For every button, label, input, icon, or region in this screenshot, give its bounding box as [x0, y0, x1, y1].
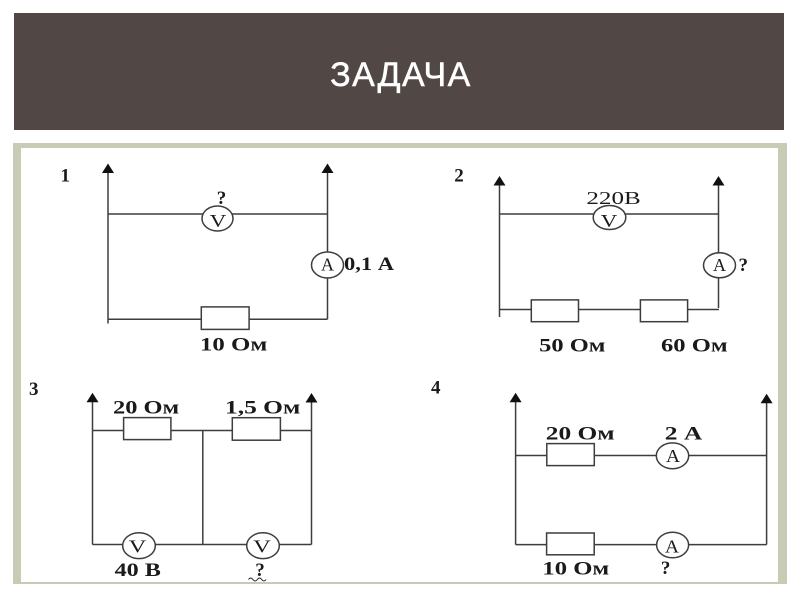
circuit 1 bottom wire: [108, 318, 328, 320]
circuit 3 bottom wire: [93, 544, 312, 546]
circuit 2 top wire: [500, 213, 719, 215]
circuit 4 right terminal arrow: [761, 394, 773, 404]
circuit 3 left wire: [92, 398, 94, 545]
svg-text:V: V: [253, 536, 271, 556]
circuit 3 voltmeter V2: [247, 533, 280, 559]
title bar: [14, 13, 785, 130]
circuit 4 bottom branch wire: [516, 544, 767, 546]
svg-text:20 Ом: 20 Ом: [113, 398, 179, 419]
circuit 1 voltmeter V: [202, 206, 233, 231]
circuit 3 right terminal arrow: [306, 393, 318, 403]
circuit 3 left terminal arrow: [87, 393, 99, 403]
circuit 1 ammeter A: [312, 252, 344, 278]
svg-text:1: 1: [60, 166, 70, 187]
svg-text:60 Ом: 60 Ом: [661, 335, 728, 356]
svg-text:3: 3: [29, 379, 39, 400]
svg-text:2: 2: [454, 166, 464, 187]
svg-text:?: ?: [661, 558, 671, 579]
circuit 4 top branch wire: [516, 455, 767, 457]
circuit 3 top wire: [93, 430, 312, 432]
circuit 4 right wire: [766, 399, 768, 545]
circuit 4 left terminal arrow: [510, 393, 522, 403]
svg-text:50 Ом: 50 Ом: [539, 335, 605, 356]
svg-text:V: V: [129, 536, 147, 556]
circuit 1 right terminal arrow: [322, 164, 334, 174]
svg-text:10 Ом: 10 Ом: [200, 335, 267, 356]
circuit 3 resistor R1 20 Ом: [124, 418, 171, 440]
svg-text:4: 4: [431, 378, 441, 399]
circuit 4 ammeter A2: [657, 532, 689, 558]
svg-text:V: V: [601, 211, 618, 231]
circuit 3 spellcheck squiggle under ?: [249, 578, 267, 581]
svg-text:0,1 А: 0,1 А: [344, 254, 394, 275]
svg-text:A: A: [321, 255, 334, 275]
svg-text:A: A: [665, 537, 679, 557]
circuit 1 resistor R 10 Ом: [201, 307, 249, 330]
circuit 2 ammeter A: [704, 253, 736, 278]
svg-text:2 А: 2 А: [665, 423, 703, 444]
circuit 4 ammeter A1 2 А: [656, 443, 688, 469]
svg-text:V: V: [210, 211, 227, 231]
circuit 1 right wire: [327, 168, 329, 319]
svg-text:10 Ом: 10 Ом: [542, 559, 609, 580]
circuit 2 left terminal arrow: [494, 176, 506, 186]
circuit 2 left wire: [499, 181, 501, 317]
circuit 3 voltmeter V1 40 В: [123, 533, 156, 559]
circuit 1 left wire: [107, 168, 109, 324]
circuit 3 resistor R2 1,5 Ом: [232, 418, 280, 441]
circuit 2 resistor R1 50 Ом: [531, 300, 578, 322]
circuit 2 right wire: [718, 181, 720, 308]
circuit 4 resistor R2 10 Ом: [547, 533, 595, 555]
svg-text:A: A: [713, 255, 726, 275]
circuit 3 right wire: [311, 398, 313, 545]
circuit 2 bottom wire: [500, 309, 720, 311]
svg-text:?: ?: [217, 188, 227, 209]
circuit 2 right terminal arrow: [713, 176, 725, 186]
circuit 1 left terminal arrow: [102, 164, 114, 174]
title text: [16, 58, 786, 92]
svg-text:40 В: 40 В: [115, 560, 162, 581]
svg-text:20 Ом: 20 Ом: [546, 423, 615, 444]
content frame: [13, 143, 787, 585]
svg-text:A: A: [666, 446, 680, 466]
svg-text:1,5 Ом: 1,5 Ом: [225, 398, 300, 419]
circuit 1 top wire: [108, 213, 328, 215]
svg-text:?: ?: [739, 255, 749, 276]
circuit 2 voltmeter V 220В: [593, 206, 626, 231]
svg-text:220В: 220В: [586, 188, 640, 208]
circuit 2 resistor R2 60 Ом: [640, 300, 687, 322]
circuit 3 middle wire: [202, 431, 204, 545]
circuit 4 left wire: [515, 398, 517, 545]
circuit 4 resistor R1 20 Ом: [547, 444, 595, 466]
